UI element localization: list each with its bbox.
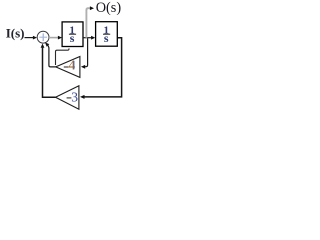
block G1 integrator 1/s	[62, 22, 83, 47]
gain H4 triangle	[56, 57, 80, 78]
wire H4 output to summer (diagonal arrow)	[48, 45, 56, 67]
summing junction S1	[37, 31, 49, 43]
value label -3	[67, 97, 72, 99]
wire H3 output up to summer bottom	[43, 48, 56, 98]
wire input I(s) to summer	[25, 37, 34, 39]
value label 1/s of G2	[104, 24, 110, 45]
wire G1 to G2	[83, 37, 91, 39]
wire summer to block G1 (gray)	[49, 37, 58, 39]
svg-text:I(s): I(s)	[6, 25, 25, 40]
wire G2 output around right and bottom to H3 input	[84, 38, 121, 97]
gain H3 triangle	[56, 86, 79, 109]
svg-text:s: s	[104, 31, 109, 45]
block G2 integrator 1/s	[96, 22, 118, 47]
wire connector G1 bottom to H4 apex	[56, 48, 70, 65]
svg-text:s: s	[70, 31, 75, 45]
value label -4	[64, 66, 69, 68]
svg-text:O(s): O(s)	[96, 0, 122, 16]
svg-text:3: 3	[71, 90, 78, 105]
value label 1/s of G1	[69, 24, 75, 45]
plus sign in summer	[42, 33, 44, 41]
wire tap down from G1-G2 node to H4 input	[85, 38, 88, 66]
wire tap up to O(s) (gray riser)	[86, 8, 90, 38]
